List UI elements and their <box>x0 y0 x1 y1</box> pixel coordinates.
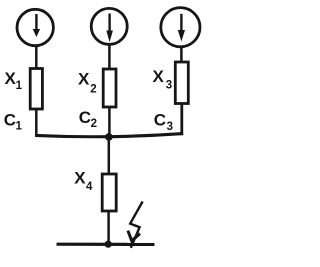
reactance X3 box <box>175 62 188 104</box>
ground bar <box>57 243 155 246</box>
reactance X1 box <box>30 69 42 110</box>
svg-text:X: X <box>153 67 165 86</box>
wire X1 to bus <box>35 109 38 136</box>
current source 1 <box>17 9 53 45</box>
wire X2 to bus <box>108 107 111 137</box>
wire source3 to X3 <box>180 47 183 63</box>
wire X4 to ground bar <box>107 211 110 244</box>
svg-text:C: C <box>79 108 91 127</box>
svg-text:1: 1 <box>16 120 23 132</box>
current source 2 <box>91 8 127 44</box>
junction dot at ground <box>105 241 112 248</box>
svg-text:3: 3 <box>166 79 172 91</box>
junction node C2 dot <box>105 133 113 141</box>
svg-text:X: X <box>78 70 90 89</box>
wire source2 to X2 <box>108 45 111 70</box>
current source 3 <box>161 8 200 47</box>
reactance X4 box <box>102 174 116 211</box>
wire X3 to bus <box>180 104 183 136</box>
svg-text:2: 2 <box>90 84 96 96</box>
wire source1 to X1 <box>35 46 38 70</box>
fault lightning arrow <box>128 202 143 248</box>
bus wire C1-C2-C3 <box>35 134 183 137</box>
svg-text:C: C <box>4 111 16 130</box>
svg-text:1: 1 <box>16 80 23 92</box>
svg-text:X: X <box>74 168 86 187</box>
wire bus to X4 <box>108 137 111 175</box>
svg-text:2: 2 <box>91 118 97 130</box>
reactance X2 box <box>103 69 116 107</box>
svg-text:3: 3 <box>167 121 173 133</box>
svg-text:4: 4 <box>86 181 93 193</box>
svg-text:C: C <box>154 110 166 129</box>
